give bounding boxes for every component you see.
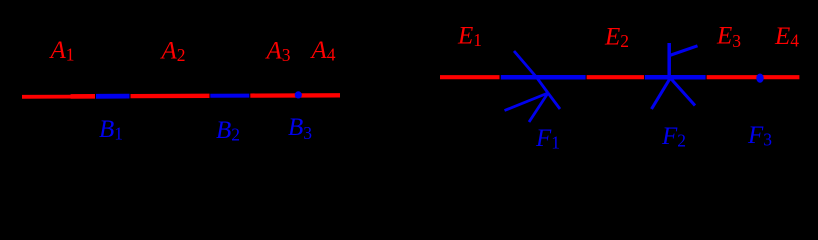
segments E3 and E4: [707, 75, 800, 79]
spider F2 horizontal: [645, 75, 706, 80]
segment E1: [440, 75, 500, 79]
spider F1 branches: [505, 51, 561, 122]
F2 vertical upper branch: [667, 43, 671, 78]
F2 lower-right branch: [670, 78, 695, 106]
segment E2: [587, 75, 644, 79]
F2 upper-right branch: [670, 46, 698, 56]
spider F1 horizontal: [501, 75, 586, 80]
F2 lower-left branch: [652, 78, 671, 109]
segment A2: [131, 94, 210, 99]
F1 lower-right branch: [548, 93, 560, 109]
gap B1: [96, 94, 130, 99]
gap B2: [210, 94, 249, 98]
segment A1 thick part: [71, 94, 95, 99]
F1 long lower-left branch: [505, 93, 549, 111]
point F3: [756, 74, 763, 83]
F1 upper branch and trunk: [514, 51, 548, 93]
spider F2 branches: [652, 43, 698, 109]
point B3: [295, 91, 302, 98]
F1 steep lower branch: [529, 93, 548, 122]
segment A3 and A4: [250, 93, 340, 98]
segment A1 thin part: [22, 95, 71, 99]
